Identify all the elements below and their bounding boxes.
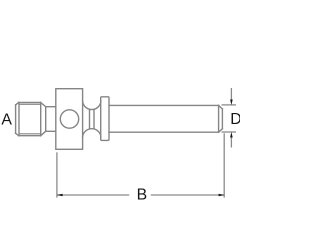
svg-text:B: B bbox=[137, 186, 148, 203]
svg-text:A: A bbox=[1, 111, 12, 128]
svg-text:D: D bbox=[230, 111, 240, 128]
